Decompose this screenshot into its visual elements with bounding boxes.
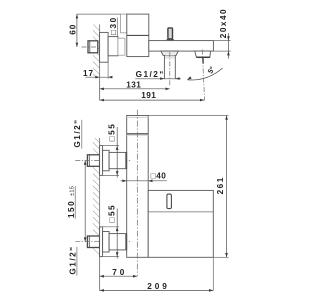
svg-text:□55: □55 [108,204,117,223]
dimension 20x40 extension lines [213,40,230,42]
svg-text:191: 191 [141,91,156,100]
svg-text:17: 17 [83,69,94,78]
lower inlet pipe [109,234,127,250]
svg-text:G1/2ʺ: G1/2ʺ [73,118,82,147]
upper pipe-column joint shading [125,152,127,168]
dimension 70 line [100,275,138,277]
dimension line 20x40 [227,33,229,59]
lower escutcheon plate [100,227,103,257]
lower square-55 dimension line [116,209,118,259]
upper escutcheon dome [103,150,110,171]
dimension 17 line [86,76,113,78]
union centerline [82,46,113,48]
escutcheon front extension line [107,62,109,79]
5 deg arc [187,68,222,80]
spout axis 5 deg centerline [202,50,204,101]
upper square-55 extension lines [100,145,119,147]
in-wall union square [88,41,98,53]
svg-text:261: 261 [216,176,225,194]
spout aerator dark lip [196,56,210,58]
notch piece upper-left of body (plan) [120,14,126,33]
shower outlet flange [161,51,178,55]
tub spout [195,51,211,57]
shower column body [127,116,149,258]
column cap top shading line [127,116,149,118]
upper inlet centerline [75,160,131,162]
dimension 209 line [100,289,214,291]
valve body box (plan) [127,14,149,57]
lower square-55 extension lines [100,226,119,228]
upper escutcheon plate [100,146,103,176]
svg-text:131: 131 [126,81,141,90]
dimension 150 line [84,161,86,242]
column centerline [136,110,138,277]
upper square-55 dimension line [116,127,118,178]
wall face line (plan view) [99,25,101,101]
upper inlet union [87,155,99,167]
svg-text:G1/2ʺ: G1/2ʺ [136,70,165,79]
escutcheon plate (plan) [100,32,109,62]
dimension 261 extension lines [148,115,228,117]
underline for square-30 [116,18,118,37]
underline G1/2 lower [76,247,78,276]
svg-text:G1/2ʺ: G1/2ʺ [68,245,77,274]
sleeve (plan) [108,37,118,56]
spout arm (plan) [149,41,214,52]
svg-text:70: 70 [112,268,127,277]
lower escutcheon dome [103,232,110,253]
shower hose nipple nut shading [165,55,175,58]
wall hatch band (side view) [93,138,100,255]
dimension line 261 [226,116,228,258]
svg-text:□30: □30 [109,16,118,35]
lower pipe-column joint shading [125,234,127,250]
svg-text:60: 60 [69,24,78,35]
dimension 209 extension line [212,257,214,290]
column cap seam [127,133,149,135]
slide box / shelf [148,190,213,257]
slot in shelf [167,194,172,209]
lower inlet centerline [75,241,131,243]
spout outlet stub [202,58,204,64]
underline G1/2 upper [81,120,83,149]
shower hose nipple [163,55,165,78]
diverter knob [168,28,173,39]
svg-text:209: 209 [147,282,169,291]
nipple thread dimension line G1/2 [135,78,181,80]
svg-text:□55: □55 [108,123,117,142]
knob base flange [167,39,174,41]
upper inlet pipe [109,152,127,168]
dimension 60 extension line [77,13,121,15]
square-40 leader line [121,180,167,182]
svg-text:20x40: 20x40 [219,8,228,38]
joint piece (plan) [118,38,125,55]
dimension 191 line [100,99,205,101]
body internal seam (plan) [127,34,149,36]
dimension line 60 [76,14,78,47]
shelf internal seam [148,211,213,213]
underline 150 [74,186,76,219]
column cap seam shading [127,134,149,136]
wall hatch band (plan view) [93,25,100,78]
svg-text:±15: ±15 [69,186,75,196]
lower inlet union [87,236,99,248]
shower outlet centerline [169,52,171,87]
wall face line (side view) [99,138,101,291]
svg-text:150: 150 [67,200,76,218]
dimension 131 line [100,88,170,90]
svg-text:□40: □40 [151,171,166,180]
